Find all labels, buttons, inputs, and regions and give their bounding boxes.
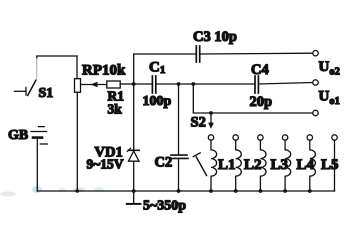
svg-text:C2: C2 — [155, 155, 173, 171]
svg-text:Uo2: Uo2 — [319, 59, 340, 78]
svg-text:Uo1: Uo1 — [319, 89, 340, 108]
junction dot L3 bottom — [259, 189, 263, 193]
wire node A up to top rail corner — [133, 54, 135, 84]
inductor L3 — [260, 140, 266, 191]
junction dot S2 common — [209, 111, 213, 115]
terminal Uo2 — [313, 51, 318, 56]
wire top-left from S1 up to RP top — [37, 56, 77, 59]
wire RP bottom to ground rail — [76, 92, 78, 191]
svg-text:3k: 3k — [108, 102, 123, 117]
wire node A to C1 — [134, 83, 153, 85]
wire R1 to node A — [120, 83, 134, 85]
inductor L5 — [310, 140, 316, 191]
junction dot L5 bottom — [308, 189, 312, 193]
node B junction dot — [177, 82, 181, 86]
svg-text:L3: L3 — [271, 157, 289, 173]
capacitor C1 — [152, 76, 155, 93]
svg-text:RP10k: RP10k — [82, 63, 126, 79]
svg-text:C4: C4 — [251, 62, 269, 78]
wire C3 to terminal Uo2 — [200, 52, 313, 55]
diode VD1 — [127, 84, 139, 191]
svg-text:C1: C1 — [149, 60, 165, 77]
RP wiper arrow and wire to R1 — [81, 82, 107, 88]
inductor L4 — [285, 140, 291, 191]
S2 contact 2 — [233, 135, 238, 140]
svg-text:20p: 20p — [250, 94, 273, 110]
svg-text:100p: 100p — [143, 94, 172, 109]
S2 contact 4 — [282, 135, 287, 140]
top rail wire to C3 — [134, 53, 197, 55]
junction dot L4 bottom — [283, 189, 287, 193]
svg-text:GB: GB — [8, 128, 28, 143]
S2 contact 1 — [208, 135, 213, 140]
terminal Uo1 — [313, 80, 318, 85]
inductor L1 — [211, 140, 217, 191]
wire node C to C4 — [193, 83, 255, 85]
terminal common — [313, 110, 318, 115]
svg-text:L1: L1 — [218, 157, 236, 173]
wire node C down and right to common terminal — [193, 84, 313, 113]
svg-text:C3 10p: C3 10p — [193, 29, 237, 45]
wire RP top lead — [76, 56, 78, 79]
resistor R1 — [107, 81, 120, 88]
junction dot L1 bottom — [209, 189, 213, 193]
S2 contact 5 — [307, 135, 312, 140]
svg-text:L5: L5 — [321, 157, 339, 173]
capacitor C2 — [171, 84, 188, 191]
wire battery to ground rail — [36, 139, 38, 191]
ground rail — [37, 190, 334, 192]
node C junction dot — [191, 82, 195, 86]
switch S2 wiper arrow — [208, 113, 214, 129]
potentiometer RP body — [75, 79, 81, 93]
svg-text:S1: S1 — [39, 86, 54, 101]
junction dot L2 bottom — [234, 189, 238, 193]
S2 contact 6 — [332, 135, 337, 140]
wire S2 contact 6 down to ground rail — [334, 140, 336, 191]
junction dot RP bottom — [76, 189, 80, 193]
wire C1 to node B — [156, 83, 179, 85]
switch S1 — [15, 59, 37, 96]
wire node B to node C — [179, 83, 194, 85]
junction dot C2 bottom — [177, 189, 181, 193]
capacitor C4 — [255, 76, 258, 93]
svg-text:9~15V: 9~15V — [87, 157, 124, 172]
svg-text:5~350p: 5~350p — [143, 199, 186, 214]
capacitor C3 — [196, 46, 199, 62]
svg-text:S2: S2 — [191, 115, 206, 131]
adjustable core arrow of L1 — [193, 153, 206, 176]
battery GB — [31, 127, 47, 144]
variable capacitor 5~350p — [127, 191, 141, 204]
svg-text:L2: L2 — [244, 157, 262, 173]
S2 contact 3 — [258, 135, 263, 140]
junction dot VD1 bottom — [132, 189, 136, 193]
node A junction dot — [132, 82, 136, 86]
wire C4 to terminal Uo1 — [259, 83, 313, 85]
inductor L2 — [236, 140, 242, 191]
